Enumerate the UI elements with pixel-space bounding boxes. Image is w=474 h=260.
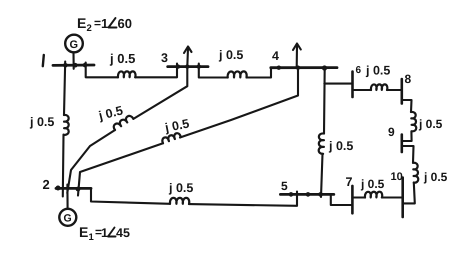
svg-text:j 0.5: j 0.5	[168, 181, 193, 195]
inductor L34 (bus3-bus4) j0.5	[228, 71, 247, 77]
label j0.5 (L68)	[365, 64, 390, 78]
diagonal wire L24 to bus 2	[78, 143, 163, 195]
bus 1	[53, 64, 94, 67]
svg-text:3: 3	[161, 51, 168, 65]
junction dot on bus 1	[63, 63, 68, 68]
node 7 bar	[351, 186, 354, 213]
label j0.5 (L12)	[29, 115, 54, 129]
svg-text:j 0.5: j 0.5	[218, 48, 243, 62]
junction dot on bus 4	[277, 66, 281, 70]
bus 2	[56, 187, 91, 190]
junction dot on bus 3	[176, 64, 180, 68]
svg-text:j 0.5: j 0.5	[360, 177, 385, 191]
svg-text:G: G	[64, 213, 72, 225]
label E1 = 1∠45	[79, 224, 130, 243]
svg-text:60: 60	[118, 16, 132, 31]
junction dot on bus 2	[76, 187, 81, 192]
wire L89 to node 9	[402, 131, 412, 141]
wire node8 to L89	[402, 100, 412, 112]
angle symbol of E2	[109, 18, 117, 28]
diagonal wire bus4 to bus2	[180, 68, 298, 138]
wire bus2 stub to line 2-5	[91, 189, 170, 204]
wire L34 to bus 4	[247, 68, 272, 78]
svg-text:4: 4	[272, 49, 279, 63]
svg-text:9: 9	[388, 125, 395, 139]
inductor L89 (8-9) j0.5 vertical	[411, 112, 416, 131]
wire node6 to L68	[353, 89, 372, 91]
svg-text:7: 7	[346, 175, 353, 189]
inductor L24 (bus2-bus4) j0.5 on diagonal	[161, 132, 181, 143]
svg-text:45: 45	[116, 226, 130, 240]
inductor L45 (bus4-bus5) j0.5 vertical	[319, 133, 324, 153]
bus 4	[271, 66, 337, 69]
junction dot on bus 1	[83, 63, 88, 68]
svg-text:5: 5	[281, 179, 288, 193]
inductor L68 (6-8) j0.5	[371, 84, 387, 90]
svg-text:2: 2	[43, 177, 50, 192]
label 1	[43, 55, 44, 66]
wire bus1 to L12 top	[64, 62, 65, 116]
diagonal wire L23 to bus 2	[67, 130, 115, 193]
label j0.5 (L910)	[423, 170, 448, 184]
inductor L710 (7-10) j0.5	[365, 192, 382, 198]
svg-text:j 0.5: j 0.5	[418, 117, 443, 131]
wire bus5 stub to node 7	[331, 195, 353, 206]
label j0.5 (L89)	[418, 117, 443, 131]
wire L68 to node 8	[387, 89, 402, 91]
label j0.5 (L13)	[109, 51, 135, 66]
svg-text:10: 10	[391, 171, 403, 183]
label j0.5 (L24)	[163, 117, 191, 136]
bus 5	[280, 193, 333, 196]
junction dot on bus 5	[289, 192, 294, 197]
load arrow at bus 3	[186, 49, 189, 67]
svg-text:j 0.5: j 0.5	[109, 51, 135, 66]
angle symbol of E1	[108, 228, 116, 237]
wire G2 to bus 1	[72, 53, 74, 69]
inductor L23 (bus2-bus3) j0.5 on diagonal	[112, 114, 133, 130]
junction dot on bus 3	[185, 64, 189, 68]
junction dot on bus 1	[73, 63, 78, 68]
svg-text:j 0.5: j 0.5	[423, 170, 448, 184]
label j0.5 (L45)	[328, 139, 353, 153]
svg-text:E: E	[77, 15, 86, 31]
wire L45 to bus 5	[321, 154, 323, 197]
generator G2	[65, 35, 83, 53]
svg-text:1: 1	[101, 226, 108, 240]
label j0.5 (L23)	[96, 103, 124, 123]
svg-text:j 0.5: j 0.5	[163, 117, 191, 136]
junction dot on bus 5	[306, 192, 311, 197]
wire bus3 stub to line 3-4	[199, 64, 228, 78]
svg-text:1: 1	[89, 232, 95, 243]
junction dot on bus 3	[197, 64, 201, 68]
svg-text:=: =	[94, 16, 101, 30]
label E2 = 1∠60	[77, 15, 132, 34]
inductor L25 (bus2-bus5) j0.5	[170, 198, 189, 204]
wire L12 bottom to bus 2	[62, 135, 65, 197]
svg-text:1: 1	[101, 16, 108, 31]
svg-text:E: E	[79, 224, 88, 240]
wire L910 to node 10	[403, 182, 415, 203]
inductor L12 (bus1-bus2) j0.5	[64, 115, 69, 135]
load arrow at bus 4	[296, 46, 298, 68]
node 10 bar	[401, 178, 404, 218]
svg-text:j 0.5: j 0.5	[328, 139, 353, 153]
node 6 bar	[351, 72, 354, 98]
wire L25 to bus 5	[189, 192, 297, 206]
diagonal wire bus3 to bus2	[133, 67, 187, 119]
svg-text:2: 2	[87, 23, 92, 34]
svg-text:j 0.5: j 0.5	[365, 64, 390, 78]
node 8 bar	[400, 79, 403, 104]
wire L710 to node 10	[382, 196, 403, 198]
wire L13 to bus 3	[135, 64, 177, 78]
bus 3	[168, 65, 208, 68]
wire bus1 stub to line 1-3	[86, 63, 118, 78]
wire node9 to L910	[402, 146, 414, 163]
junction dot node between bus4 and line down	[322, 65, 327, 70]
junction dot on bus 4	[296, 66, 300, 70]
svg-text:6: 6	[356, 65, 362, 76]
label j0.5 (L710)	[360, 177, 385, 191]
generator G1	[59, 209, 76, 226]
junction dot on bus 2	[56, 186, 61, 191]
label j0.5 (L34)	[218, 48, 243, 62]
svg-text:j 0.5: j 0.5	[29, 115, 54, 129]
svg-text:8: 8	[405, 72, 412, 86]
wire bus2 to G1	[66, 185, 68, 209]
wire bus4 junction down to L45	[323, 68, 326, 134]
label j0.5 (L25)	[168, 181, 193, 195]
junction dot on bus 5	[318, 192, 323, 197]
node 9 bar	[400, 135, 403, 153]
wire 4-5 line branch to node 6	[324, 83, 352, 85]
inductor L13 (bus1-bus3) j0.5	[118, 71, 136, 77]
svg-text:G: G	[70, 39, 79, 51]
inductor L910 (9-10) j0.5 vertical	[413, 163, 418, 183]
wire node7 to L710	[352, 196, 365, 198]
